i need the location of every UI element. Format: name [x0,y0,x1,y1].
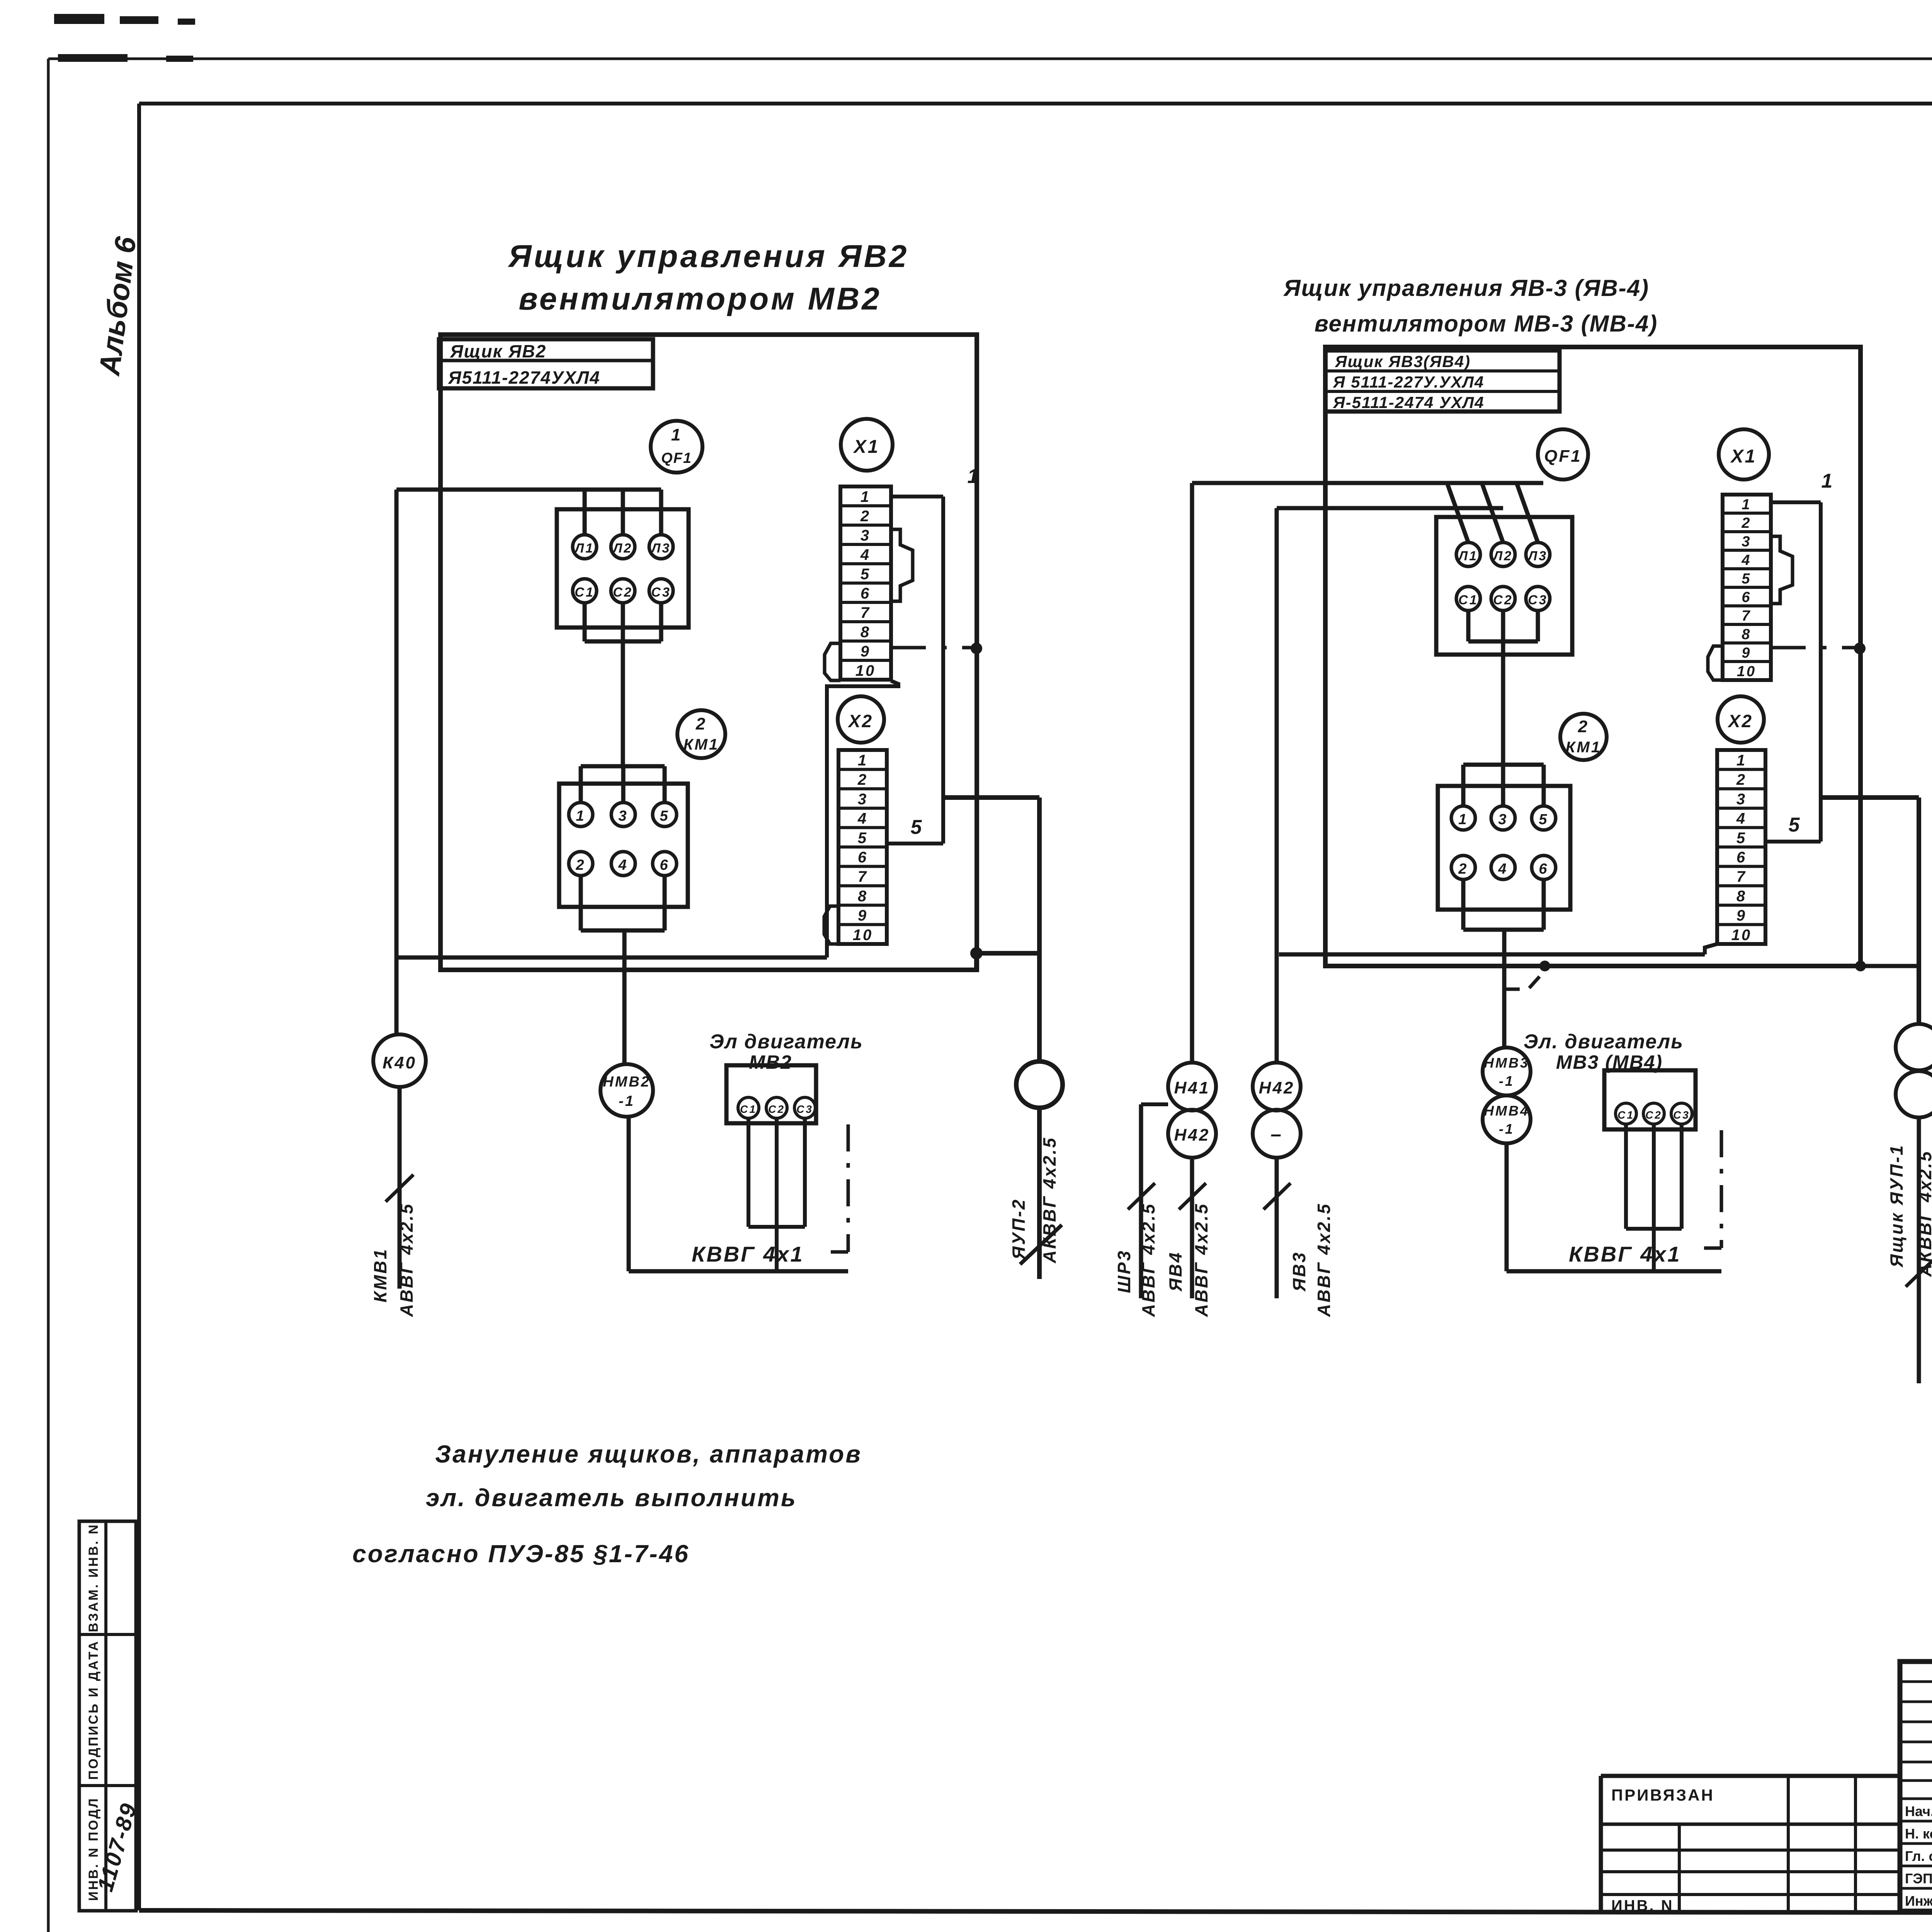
svg-text:5: 5 [1539,811,1548,828]
svg-text:вентилятором МВ2: вентилятором МВ2 [519,281,882,316]
svg-text:С2: С2 [768,1103,785,1115]
cable circle НМВ3-1 [1483,1048,1531,1095]
svg-text:Я5111-2274УХЛ4: Я5111-2274УХЛ4 [448,367,600,388]
cable circle Н42 [1253,1063,1301,1111]
cable circle Н42 [1168,1110,1216,1158]
svg-text:4: 4 [618,857,628,873]
svg-text:С3: С3 [1673,1109,1690,1121]
Н42 cable tail [1275,1158,1279,1298]
wire to motor cable bus [629,1117,848,1271]
feeder bus 2 [1277,506,1503,510]
section title Ящик управления ЯВ2 [508,239,909,316]
branch wire to cable ЯУП-2 [943,795,1039,800]
branch wire to cable ЯУП-1 [1821,795,1919,800]
svg-text:МВ2: МВ2 [749,1051,792,1073]
motor terminals [1616,1103,1692,1124]
wire X1-10 to bottom bus [827,681,898,957]
svg-text:6: 6 [858,849,868,866]
svg-text:согласно ПУЭ-85 §1-7-46: согласно ПУЭ-85 §1-7-46 [352,1540,690,1568]
svg-text:С1: С1 [575,585,594,600]
ЯУП-2 cable tail [1037,1108,1042,1279]
svg-text:ЯУП-2: ЯУП-2 [1009,1198,1029,1260]
svg-text:ИНВ. N: ИНВ. N [1611,1897,1674,1914]
svg-text:Ящик управления ЯВ2: Ящик управления ЯВ2 [508,239,909,274]
X1 connector plug mark [1771,536,1793,604]
svg-text:2: 2 [857,771,868,788]
svg-text:2: 2 [696,714,707,733]
cable circle [1896,1071,1932,1117]
svg-text:Зануление ящиков, аппаратов: Зануление ящиков, аппаратов [435,1440,862,1468]
svg-text:5: 5 [861,566,871,583]
svg-text:Гл. спец: Гл. спец [1905,1848,1932,1864]
svg-text:8: 8 [858,888,868,905]
motor wiring bracket [1626,1124,1682,1271]
svg-text:10: 10 [853,927,873,944]
svg-text:3: 3 [1736,791,1747,808]
breaker QF1 terminal box [557,509,689,628]
motor label Эл. двигатель МВ3 (МВ4) [1524,1031,1684,1073]
motor wiring bracket [748,1118,805,1271]
svg-text:5: 5 [660,808,669,824]
svg-text:С2: С2 [1493,593,1513,607]
svg-text:ЯВ3: ЯВ3 [1289,1251,1309,1292]
svg-text:2: 2 [1458,861,1468,877]
connector designator circle X1 [1719,429,1769,480]
svg-text:Ящик ЯВ2: Ящик ЯВ2 [450,341,546,361]
QF1 terminals Л1 Л2 Л3 С1 С2 С3 [573,535,673,603]
contactor КМ1 terminal box [559,784,688,907]
junction dot [1855,961,1866,971]
svg-text:Л1: Л1 [574,541,594,556]
svg-text:1: 1 [1458,811,1468,828]
svg-text:ПРИВЯЗАН: ПРИВЯЗАН [1611,1786,1714,1804]
cable circle К40 [373,1034,426,1087]
svg-text:2: 2 [575,857,585,873]
svg-text:10: 10 [855,662,876,679]
X2 connector mark [824,906,838,944]
contactor КМ1 terminal box [1438,786,1570,910]
К40 cable tail [398,1087,402,1289]
svg-text:3: 3 [861,527,871,544]
terminal strip X2 [1717,750,1765,944]
connector designator circle X1 [841,419,893,471]
svg-text:-1: -1 [1499,1073,1514,1089]
svg-text:1: 1 [1736,752,1747,769]
breaker designator circle QF1 [651,421,702,473]
svg-text:3: 3 [858,791,868,808]
title block outline [1900,1662,1932,1911]
svg-text:2: 2 [1736,771,1747,788]
junction dot [1854,643,1866,654]
motor МВ2 terminal box [726,1065,816,1123]
wire 5 to X2 [1765,840,1821,844]
feeder wire ЯУП-2 column [1037,798,1042,1061]
svg-text:7: 7 [861,604,871,621]
KM1 input bracket wire [581,766,665,803]
svg-text:4: 4 [1498,861,1508,877]
svg-text:6: 6 [1736,849,1747,866]
svg-text:4: 4 [857,810,868,827]
svg-text:4: 4 [1741,552,1751,568]
QF1 terminals [1456,543,1550,611]
bottom bus step to junction [974,953,979,970]
svg-text:НМВ4: НМВ4 [1484,1103,1529,1119]
cable circle НМВ2-1 [600,1064,653,1117]
KM1 output bracket [1463,879,1544,1048]
svg-text:АВВГ 4х2.5: АВВГ 4х2.5 [1191,1202,1211,1317]
svg-text:КМ1: КМ1 [684,736,719,753]
svg-text:1: 1 [858,752,868,769]
svg-text:1: 1 [576,808,585,824]
contactor designator circle КМ1 [677,710,725,758]
svg-text:С3: С3 [1528,593,1548,607]
svg-text:2: 2 [1741,515,1751,531]
wire 5 to X2 [888,842,943,845]
svg-text:9: 9 [1736,907,1747,924]
КМ1 terminals [1451,806,1556,879]
svg-text:Н42: Н42 [1174,1126,1210,1145]
feeder wire К40 column [395,490,399,1034]
svg-text:С2: С2 [613,585,633,600]
svg-text:К40: К40 [383,1053,417,1072]
cable circle ЯУП-2 [1016,1061,1063,1108]
KM1 output bracket wire [581,876,665,1064]
svg-text:Альбом 6: Альбом 6 [93,235,143,378]
section title Ящик управления ЯВ-3 (ЯВ-4) [1283,275,1658,337]
svg-text:5: 5 [1789,814,1801,836]
bottom bus wire B extension [1861,964,1919,968]
svg-text:6: 6 [1742,589,1751,605]
svg-text:С1: С1 [740,1103,757,1115]
feeder bus wire [396,488,661,492]
wire 1 from X1 [1771,502,1821,842]
svg-text:QF1: QF1 [1544,447,1582,466]
cable circle minus [1253,1110,1301,1158]
feeder column ЯУП-1 [1917,798,1921,1024]
feeder bus 1 [1192,481,1543,485]
wire to motor cable bus [1507,1143,1721,1271]
svg-text:3: 3 [618,808,628,824]
svg-text:-1: -1 [619,1093,635,1109]
svg-text:6: 6 [861,585,871,602]
svg-text:1: 1 [1821,470,1834,492]
connector designator circle X2 [1718,696,1764,743]
svg-text:Л3: Л3 [1527,549,1548,563]
wire 9 dash link [891,646,977,650]
wire 9 dash link [1771,646,1861,650]
svg-text:НМВ3: НМВ3 [1484,1055,1529,1071]
svg-text:5: 5 [911,816,923,838]
svg-text:8: 8 [1736,888,1747,905]
junction dot [970,947,983,959]
svg-text:Я-5111-2474 УХЛ4: Я-5111-2474 УХЛ4 [1333,393,1485,412]
svg-text:АКВВГ 4х2.5: АКВВГ 4х2.5 [1039,1136,1060,1264]
motor ground dash-dot wire [831,1124,848,1252]
svg-text:ГЭП: ГЭП [1905,1871,1932,1886]
wire X2-10 to bottom bus [1705,944,1717,954]
svg-text:1: 1 [968,465,980,488]
bottom bus wire A [1279,952,1705,957]
feeder column Н41 [1190,483,1194,1063]
second cable wire [1141,1104,1168,1298]
svg-text:Ящик управления ЯВ-3 (ЯВ-4): Ящик управления ЯВ-3 (ЯВ-4) [1283,275,1649,301]
svg-text:QF1: QF1 [661,450,692,466]
svg-text:4: 4 [860,546,871,563]
svg-text:9: 9 [858,907,868,924]
cable circle НМВ4-1 [1483,1095,1531,1143]
svg-text:Л2: Л2 [1492,549,1513,563]
junction dot [971,643,982,654]
wire 1 from X1 [891,497,943,844]
terminal strip X1 [840,486,891,680]
КМ1 terminals 1 3 5 2 4 6 [569,803,677,876]
label table Ящик ЯВ2 / Я5111-2274УХЛ4 [439,339,653,388]
bottom bus wire A [396,956,827,960]
svg-text:–: – [1270,1123,1283,1145]
svg-text:5: 5 [858,830,868,847]
svg-text:8: 8 [1742,626,1751,643]
ЯУП-1 cable tail [1917,1117,1921,1383]
motor МВ3 terminal box [1604,1070,1696,1129]
svg-text:Л3: Л3 [650,541,671,556]
svg-text:7: 7 [858,868,868,885]
svg-text:Эл двигатель: Эл двигатель [709,1031,863,1053]
svg-text:АВВГ 4х2.5: АВВГ 4х2.5 [396,1202,417,1317]
svg-text:НМВ2: НМВ2 [603,1074,651,1090]
svg-text:ЯВ4: ЯВ4 [1165,1251,1185,1292]
svg-text:X1: X1 [1730,446,1757,467]
enclosure box ЯВ3 [1325,347,1861,966]
svg-text:10: 10 [1737,663,1756,680]
motor terminals С1 С2 С3 [738,1097,815,1118]
svg-text:ВЗАМ. ИНВ. N: ВЗАМ. ИНВ. N [86,1523,101,1632]
junction wire to feeder [976,951,1039,956]
svg-text:7: 7 [1742,608,1751,624]
QF1 output bracket wire [585,603,661,766]
svg-text:Л1: Л1 [1458,549,1478,563]
connector designator circle X2 [838,696,884,743]
svg-text:Я 5111-227У.УХЛ4: Я 5111-227У.УХЛ4 [1333,373,1484,391]
svg-text:АКВВГ 4х2.5: АКВВГ 4х2.5 [1915,1150,1932,1277]
Н41 cable tail [1190,1158,1194,1298]
svg-text:Нач. отд: Нач. отд [1905,1803,1932,1819]
terminal strip X1 [1723,495,1771,680]
cable slashes [1128,1183,1206,1209]
svg-text:10: 10 [1731,927,1752,944]
svg-text:1: 1 [1742,497,1751,513]
cable circle Н41 [1168,1063,1216,1111]
svg-text:X1: X1 [853,437,880,457]
svg-text:9: 9 [1742,645,1751,661]
svg-text:5: 5 [1736,830,1747,847]
svg-text:5: 5 [1742,571,1751,587]
feeder column Н42 [1275,508,1279,1063]
svg-text:8: 8 [861,624,871,641]
svg-text:АВВГ 4х2.5: АВВГ 4х2.5 [1314,1202,1334,1317]
label table Ящик ЯВ3(ЯВ4) [1325,350,1560,412]
X1 lower connector mark [825,643,840,680]
svg-text:Инж II к: Инж II к [1905,1893,1932,1909]
svg-text:-1: -1 [1499,1121,1514,1137]
svg-text:С1: С1 [1458,593,1478,607]
junction dot [1539,961,1550,971]
svg-text:ПОДПИСЬ И ДАТА: ПОДПИСЬ И ДАТА [86,1640,101,1780]
svg-text:КМ1: КМ1 [1566,739,1601,756]
svg-text:X2: X2 [847,711,873,731]
svg-text:КВВГ 4х1: КВВГ 4х1 [692,1242,804,1266]
svg-text:С3: С3 [796,1103,813,1115]
svg-text:Ящик ЯУП-1: Ящик ЯУП-1 [1886,1144,1906,1267]
svg-text:3: 3 [1498,811,1508,828]
svg-text:6: 6 [1539,861,1548,877]
cable circle [1896,1024,1932,1070]
left margin stamp table [79,1521,136,1911]
svg-text:Н. контр: Н. контр [1905,1826,1932,1842]
svg-text:Эл. двигатель: Эл. двигатель [1524,1031,1684,1053]
svg-text:КМВ1: КМВ1 [370,1248,390,1302]
svg-text:6: 6 [660,857,669,873]
dash jumper to bus [1504,971,1545,989]
svg-text:1: 1 [861,488,871,505]
svg-text:эл. двигатель выполнить: эл. двигатель выполнить [426,1484,797,1512]
svg-text:X2: X2 [1727,711,1753,731]
svg-text:КВВГ 4х1: КВВГ 4х1 [1569,1242,1681,1266]
svg-text:С1: С1 [1617,1109,1634,1121]
svg-text:С2: С2 [1645,1109,1662,1121]
attachment table (Привязан) [1601,1776,1900,1913]
motor label Эл двигатель МВ2 [709,1031,863,1073]
svg-text:7: 7 [1736,868,1747,885]
slanted drops to QF1 [1447,483,1538,543]
svg-text:вентилятором МВ-3 (МВ-4): вентилятором МВ-3 (МВ-4) [1315,311,1658,337]
svg-text:ШР3: ШР3 [1114,1249,1134,1293]
QF1 output bracket [1468,611,1538,765]
wire drops to QF1 [585,490,661,535]
signature rows [1905,1803,1932,1909]
enclosure box ЯВ2 [440,335,977,970]
svg-text:С3: С3 [651,585,671,600]
svg-text:Н41: Н41 [1174,1078,1210,1097]
breaker designator circle QF1 [1538,429,1588,480]
svg-text:3: 3 [1742,534,1751,550]
X1 lower connector mark [1708,646,1723,680]
К40 cable slash [386,1175,413,1202]
svg-text:2: 2 [1578,717,1589,736]
breaker QF1 terminal box [1436,517,1572,655]
cable slash [1264,1183,1291,1209]
scan artifacts top-left [54,14,195,62]
svg-text:1: 1 [671,425,682,444]
contactor designator circle КМ1 [1560,714,1607,760]
svg-text:2: 2 [860,508,871,525]
svg-text:9: 9 [861,643,871,660]
svg-text:Н42: Н42 [1259,1078,1295,1097]
svg-text:Ящик ЯВ3(ЯВ4): Ящик ЯВ3(ЯВ4) [1335,352,1471,371]
svg-text:Л2: Л2 [612,541,633,556]
cable slash [1906,1260,1932,1287]
ЯУП-2 cable slash [1020,1225,1062,1264]
svg-text:4: 4 [1736,810,1747,827]
motor ground dash-dot wire [1704,1130,1721,1248]
terminal strip X2 [838,750,887,944]
svg-text:АВВГ 4х2.5: АВВГ 4х2.5 [1138,1202,1158,1317]
KM1 input bracket [1463,765,1544,806]
X1 connector plug mark [891,529,913,601]
